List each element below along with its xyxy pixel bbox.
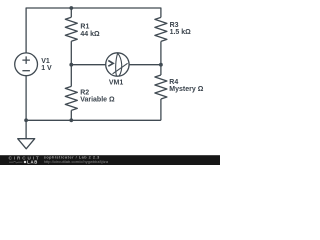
node dot: middle rail / R3 R4 — [159, 63, 163, 67]
ground — [18, 120, 35, 149]
wire: R3 bottom lead — [160, 41, 162, 64]
wire: R1 bottom lead to middle rail — [70, 41, 72, 64]
voltage source V1 — [15, 53, 38, 76]
svg-text:LAB: LAB — [27, 160, 37, 165]
node dot: middle rail / R1 R2 — [69, 63, 73, 67]
wire: middle rail right (voltmeter to R3/R4 node) — [129, 64, 161, 66]
node dot: top rail / R1 — [69, 6, 73, 10]
wire: bottom rail — [26, 119, 161, 121]
wire: R4 bottom lead to bottom rail corner — [160, 99, 162, 120]
resistor R1 — [65, 17, 77, 41]
svg-text:R4: R4 — [169, 79, 178, 86]
svg-text:R1: R1 — [80, 24, 89, 31]
wire: R4 top lead — [160, 65, 162, 75]
resistor R3 — [155, 17, 167, 41]
node dot: bottom rail / ground — [24, 118, 28, 122]
svg-text:R2: R2 — [80, 89, 89, 96]
wire: R2 top lead — [70, 65, 72, 87]
svg-text:44 kΩ: 44 kΩ — [80, 31, 100, 38]
CircuitLab logo: cursor square — [24, 161, 26, 163]
wire: left rail top, top rail, and R3 top lead — [26, 8, 161, 53]
CircuitLab logo: wire motif — [9, 161, 23, 163]
voltmeter VM1 — [106, 53, 129, 76]
svg-text:http://circuitlab.com/c/hygwbb: http://circuitlab.com/c/hygwbbz8jtza — [44, 159, 109, 164]
svg-text:Mystery Ω: Mystery Ω — [169, 86, 203, 93]
svg-text:Variable Ω: Variable Ω — [80, 96, 115, 103]
resistor R4 — [155, 75, 167, 99]
svg-text:1 V: 1 V — [41, 65, 52, 72]
svg-text:VM1: VM1 — [109, 80, 124, 87]
wire: R2 bottom lead — [70, 110, 72, 120]
footer bar — [0, 155, 220, 165]
wire: R1 top lead from top rail — [70, 8, 72, 17]
node dot: bottom rail / R2 — [69, 118, 73, 122]
wire: left rail bottom (V1 to bottom rail) — [25, 76, 27, 121]
resistor R2 — [65, 86, 77, 110]
svg-text:R3: R3 — [170, 22, 179, 29]
svg-text:1.5 kΩ: 1.5 kΩ — [170, 29, 192, 36]
wire: middle rail left (R1/R2 node to voltmeter) — [71, 64, 105, 66]
